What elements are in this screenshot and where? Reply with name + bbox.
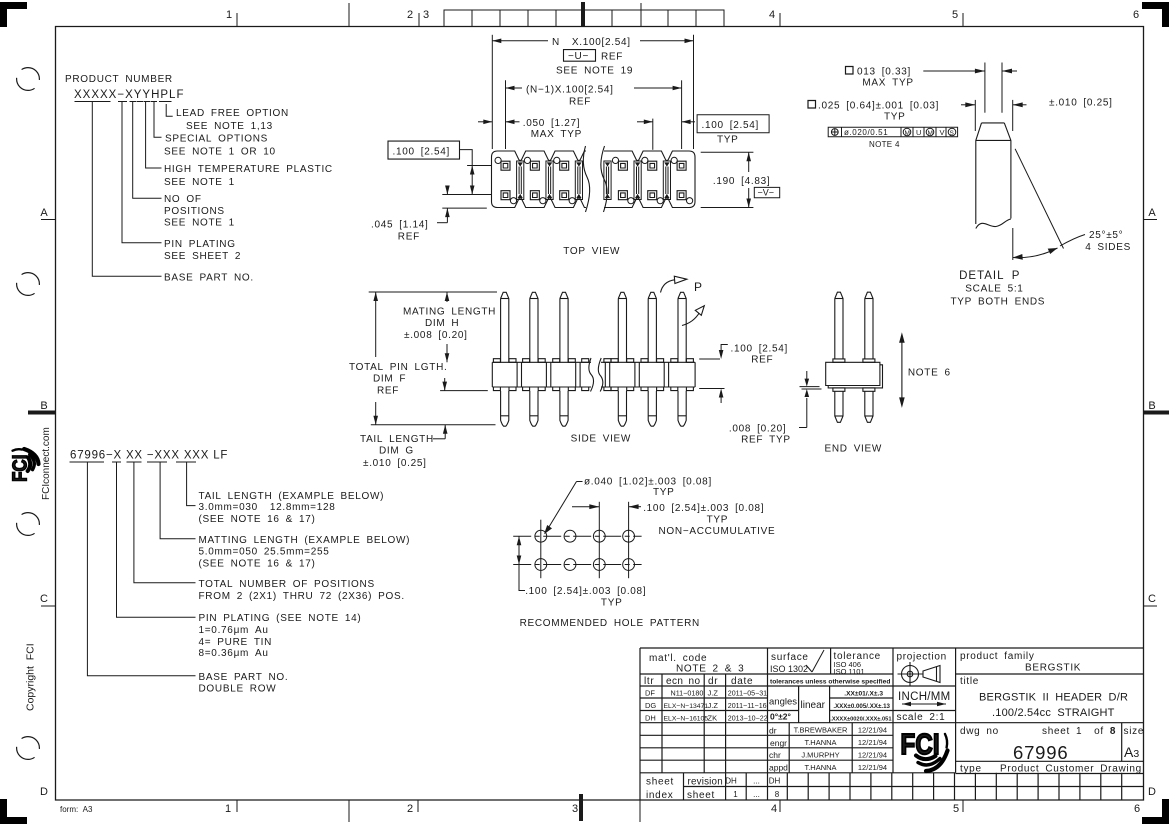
- svg-text:FCIconnect.com: FCIconnect.com: [41, 427, 52, 500]
- svg-text:RECOMMENDED HOLE PATTERN: RECOMMENDED HOLE PATTERN: [520, 618, 700, 629]
- svg-text:.025 [0.64]±.001 [0.03]: .025 [0.64]±.001 [0.03]: [818, 101, 939, 112]
- end view tabs: [833, 359, 845, 362]
- center thick mark bottom: [579, 794, 583, 821]
- end view pin tip base lines: [835, 298, 843, 300]
- svg-text:size: size: [1124, 726, 1145, 737]
- tip flat extension lines: [984, 63, 986, 113]
- svg-text:DF: DF: [645, 689, 655, 698]
- svg-text:N X.100[2.54]: N X.100[2.54]: [552, 37, 631, 48]
- svg-text:REF: REF: [751, 355, 773, 366]
- tolerance values: [830, 691, 891, 723]
- hole circles row 2: [535, 559, 547, 571]
- end view body: [826, 362, 880, 385]
- top view corner circles row1: [495, 157, 693, 204]
- svg-text:A: A: [1148, 207, 1156, 219]
- svg-text:form: A3: form: A3: [60, 805, 93, 814]
- leader XXXXX to BASE PART NO: [92, 102, 161, 277]
- registration circle 4: [17, 737, 40, 760]
- top view corner circles row2: [510, 198, 516, 204]
- corner mark bottom-right: [1142, 799, 1169, 824]
- zone numerals bottom: [225, 803, 1140, 815]
- svg-text:DH: DH: [769, 777, 781, 786]
- dimension .008 [0.20] REF TYP: [799, 371, 822, 428]
- svg-text:J.Z: J.Z: [708, 689, 719, 698]
- svg-text:REF: REF: [377, 386, 399, 397]
- svg-text:ø.020/0.51: ø.020/0.51: [844, 128, 888, 137]
- svg-text:PIN PLATING: PIN PLATING: [164, 239, 236, 250]
- svg-text:(SEE NOTE 16 & 17): (SEE NOTE 16 & 17): [199, 514, 316, 525]
- svg-text:appd: appd: [769, 763, 788, 773]
- registration circle 2: [17, 273, 40, 296]
- row centerlines: [513, 535, 641, 537]
- svg-text:8=0.36μm Au: 8=0.36μm Au: [199, 648, 269, 659]
- svg-text:C: C: [40, 593, 48, 605]
- svg-text:TYP: TYP: [707, 515, 729, 526]
- svg-text:2: 2: [407, 803, 413, 815]
- svg-text:P: P: [694, 280, 702, 294]
- svg-text:mat'l. code: mat'l. code: [649, 653, 707, 664]
- svg-text:M: M: [905, 130, 910, 137]
- square symbols for 013 and .025: [846, 67, 854, 75]
- svg-text:REF: REF: [398, 232, 420, 243]
- svg-text:index: index: [646, 790, 673, 801]
- svg-text:B: B: [40, 400, 47, 412]
- svg-text:DH: DH: [725, 777, 737, 786]
- svg-text:A: A: [40, 207, 48, 219]
- svg-text:tolerances unless otherwise sp: tolerances unless otherwise specified: [770, 679, 890, 686]
- corner mark top-right: [1142, 2, 1169, 27]
- svg-text:PRODUCT NUMBER: PRODUCT NUMBER: [65, 74, 173, 85]
- dim 025 arrows: [961, 104, 975, 106]
- svg-text:ZK: ZK: [708, 713, 718, 722]
- underlines for 67996-X XX -XXX XXX LF: [70, 462, 197, 676]
- svg-text:TYP: TYP: [601, 598, 623, 609]
- center thick mark left: [28, 411, 56, 415]
- svg-text:SEE NOTE 1,13: SEE NOTE 1,13: [186, 121, 273, 132]
- svg-text:±.010 [0.25]: ±.010 [0.25]: [363, 458, 427, 469]
- left dimension: [518, 536, 520, 564]
- svg-text:ltr: ltr: [644, 676, 654, 687]
- dimension .100 [2.54] REF (side view right): [699, 345, 728, 404]
- svg-text:.045 [1.14]: .045 [1.14]: [371, 220, 428, 231]
- title block: [640, 648, 1144, 800]
- dimension .100 [2.54] left boxed with leader: [388, 141, 491, 194]
- svg-text:.100 [2.54]±.003 [0.08]: .100 [2.54]±.003 [0.08]: [643, 503, 764, 514]
- projection symbol: [898, 662, 941, 686]
- svg-text:TOP VIEW: TOP VIEW: [563, 246, 620, 257]
- side view pin 2: [530, 292, 538, 426]
- dim H line: [446, 292, 448, 302]
- body bottom extension line: [440, 390, 488, 392]
- svg-text:(N−1)X.100[2.54]: (N−1)X.100[2.54]: [526, 85, 614, 96]
- dr engr chr appd rows: [769, 725, 788, 772]
- body width extension lines: [974, 100, 976, 131]
- svg-text:.100 [2.54]±.003 [0.08]: .100 [2.54]±.003 [0.08]: [525, 586, 646, 597]
- svg-text:REF TYP: REF TYP: [741, 435, 791, 446]
- underlines for XXXXX-XYYHPLF: [75, 102, 173, 277]
- body bottom tabs: [493, 387, 500, 391]
- svg-text:SEE NOTE 1 OR 10: SEE NOTE 1 OR 10: [164, 147, 276, 158]
- fold tick bottom 640: [639, 800, 641, 822]
- svg-text:Product Customer Drawing: Product Customer Drawing: [1000, 764, 1142, 775]
- zone letters left: [40, 207, 48, 798]
- svg-text:1: 1: [225, 803, 231, 815]
- svg-text:T.HANNA: T.HANNA: [804, 738, 836, 747]
- title block vertical rules: [661, 674, 663, 773]
- top view pins row2: [501, 191, 510, 200]
- dim 013 line: [923, 70, 985, 72]
- svg-text:DETAIL P: DETAIL P: [959, 270, 1020, 282]
- revision row DF: [645, 689, 768, 723]
- svg-text:BERGSTIK II HEADER D/R: BERGSTIK II HEADER D/R: [979, 692, 1128, 704]
- svg-text:12/21/94: 12/21/94: [858, 738, 887, 747]
- svg-text:ISO 1302: ISO 1302: [770, 664, 808, 674]
- end view pin right: [865, 292, 873, 422]
- svg-text:±.010 [0.25]: ±.010 [0.25]: [1049, 98, 1113, 109]
- svg-text:TYP: TYP: [884, 112, 906, 123]
- angle extension line: [1012, 228, 1014, 260]
- svg-text:...: ...: [753, 790, 760, 799]
- svg-text:25°±5°: 25°±5°: [1089, 230, 1123, 241]
- part number legend (bottom-left): [70, 450, 410, 695]
- svg-text:ELX−N−16105: ELX−N−16105: [664, 715, 709, 722]
- svg-text:date: date: [731, 676, 753, 687]
- svg-text:SIDE VIEW: SIDE VIEW: [571, 434, 631, 445]
- svg-text:NOTE 6: NOTE 6: [908, 368, 951, 379]
- zone ticks top edge: [237, 2, 963, 27]
- svg-text:M: M: [928, 130, 933, 137]
- side view pin 5: [648, 292, 656, 426]
- top dimension arrows: [572, 506, 599, 508]
- svg-text:DG: DG: [645, 701, 656, 710]
- body top tabs: [493, 359, 500, 363]
- leader XXX1 to MATTING LENGTH: [160, 462, 195, 539]
- registration circle 1 left margin: [17, 68, 40, 760]
- svg-text:S: S: [950, 130, 955, 137]
- dim F line: [375, 292, 377, 357]
- feature control frame: [828, 127, 957, 137]
- svg-text:ISO 1101: ISO 1101: [834, 667, 865, 676]
- svg-text:.008 [0.20]: .008 [0.20]: [729, 424, 786, 435]
- svg-text:6: 6: [1133, 9, 1139, 21]
- svg-text:TYP: TYP: [653, 487, 675, 498]
- svg-text:NON−ACCUMULATIVE: NON−ACCUMULATIVE: [659, 526, 776, 537]
- top view body outline left section: [492, 146, 696, 212]
- svg-text:12/21/94: 12/21/94: [858, 726, 887, 735]
- svg-text:DIM G: DIM G: [379, 446, 414, 457]
- svg-text:MATING LENGTH: MATING LENGTH: [403, 307, 496, 318]
- dimension .045 [1.14] REF: [437, 186, 487, 223]
- svg-text:J.MURPHY: J.MURPHY: [801, 751, 839, 760]
- leader P to SPECIAL OPTIONS: [154, 102, 162, 138]
- svg-text:title: title: [960, 676, 979, 687]
- svg-text:XXXXX−XYYHPLF: XXXXX−XYYHPLF: [74, 89, 184, 101]
- zone ticks bottom edge: [237, 794, 963, 822]
- dim G arrows: [444, 378, 446, 391]
- svg-text:product family: product family: [960, 651, 1035, 662]
- svg-text:4: 4: [771, 803, 777, 815]
- surface finish checkmark symbol: [806, 665, 812, 672]
- svg-text:3: 3: [572, 803, 578, 815]
- hole circles row 1: [535, 530, 547, 542]
- sheet index small cells: [807, 773, 809, 800]
- svg-text:U: U: [916, 128, 921, 137]
- svg-text:5.0mm=050 25.5mm=255: 5.0mm=050 25.5mm=255: [199, 547, 330, 558]
- svg-text:1: 1: [733, 790, 738, 799]
- svg-text:NOTE 4: NOTE 4: [869, 140, 900, 149]
- side view pin 1: [501, 292, 509, 426]
- svg-text:INCH/MM: INCH/MM: [898, 691, 951, 703]
- svg-text:sheet 1 of 8: sheet 1 of 8: [1042, 726, 1116, 737]
- svg-text:2: 2: [407, 9, 413, 21]
- svg-text:0°±2°: 0°±2°: [770, 712, 792, 722]
- INCH/MM double arrow: [902, 702, 946, 706]
- svg-text:3.0mm=030 12.8mm=128: 3.0mm=030 12.8mm=128: [199, 502, 336, 513]
- body break lines: [589, 358, 594, 392]
- side view dimensions: [369, 292, 497, 439]
- svg-text:scale 2:1: scale 2:1: [897, 712, 946, 723]
- svg-text:.XX±01/.X±.3: .XX±01/.X±.3: [844, 691, 883, 698]
- svg-text:MATTING LENGTH (EXAMPLE BELOW): MATTING LENGTH (EXAMPLE BELOW): [199, 535, 411, 546]
- svg-text:BASE PART NO.: BASE PART NO.: [164, 273, 254, 284]
- svg-text:±.008 [0.20]: ±.008 [0.20]: [404, 330, 468, 341]
- end view pin left: [835, 292, 843, 422]
- leader XX to TOTAL NUMBER OF POSITIONS: [134, 462, 196, 583]
- svg-text:TAIL LENGTH (EXAMPLE BELOW): TAIL LENGTH (EXAMPLE BELOW): [199, 491, 385, 502]
- svg-text:DOUBLE ROW: DOUBLE ROW: [199, 684, 277, 695]
- svg-text:engr: engr: [770, 738, 787, 748]
- svg-text:12/21/94: 12/21/94: [858, 763, 887, 772]
- svg-text:4= PURE TIN: 4= PURE TIN: [199, 637, 273, 648]
- svg-text:TYP: TYP: [717, 135, 739, 146]
- svg-text:DIM H: DIM H: [425, 318, 459, 329]
- FCI logo title block: [901, 728, 948, 771]
- svg-text:1=0.76μm Au: 1=0.76μm Au: [199, 625, 269, 636]
- column centerlines: [540, 520, 542, 579]
- svg-text:D: D: [1148, 786, 1156, 798]
- svg-text:BERGSTIK: BERGSTIK: [1025, 663, 1081, 674]
- detail P bottom break: [976, 219, 1011, 229]
- diagonal leader for hole dia: [547, 482, 577, 532]
- svg-text:ELX−N−13471: ELX−N−13471: [664, 703, 709, 710]
- detail P pin outline: [976, 123, 1011, 224]
- svg-text:B: B: [1148, 400, 1155, 412]
- svg-text:2013−10−22: 2013−10−22: [728, 714, 768, 722]
- svg-text:A3: A3: [1124, 744, 1139, 760]
- center thick mark top: [581, 2, 585, 27]
- svg-text:LEAD FREE OPTION: LEAD FREE OPTION: [176, 108, 289, 119]
- svg-text:67996−X XX −XXX XXX LF: 67996−X XX −XXX XXX LF: [70, 450, 228, 462]
- leader to 25 text: [1060, 235, 1085, 247]
- -U- datum flag: [564, 50, 596, 62]
- svg-text:T.HANNA: T.HANNA: [804, 763, 836, 772]
- title block horizontal rules: [640, 673, 893, 675]
- top view pins row1: [501, 161, 686, 200]
- svg-text:N11−0180: N11−0180: [671, 689, 704, 698]
- fold tick top 349: [348, 3, 350, 27]
- svg-text:(SEE NOTE 16 & 17): (SEE NOTE 16 & 17): [199, 559, 316, 570]
- zone letter ticks left edge: [28, 220, 56, 607]
- svg-text:.100 [2.54]: .100 [2.54]: [702, 120, 759, 131]
- svg-text:SEE NOTE 1: SEE NOTE 1: [164, 177, 235, 188]
- FCIconnect.com vertical text: [25, 427, 94, 814]
- svg-text:MAX TYP: MAX TYP: [862, 78, 913, 89]
- side view insulator body left part: [492, 362, 591, 387]
- svg-text:V: V: [940, 128, 945, 137]
- svg-text:5: 5: [953, 803, 959, 815]
- angle slant line: [1015, 149, 1063, 249]
- svg-text:013 [0.33]: 013 [0.33]: [857, 67, 911, 78]
- leader H to HIGH TEMPERATURE PLASTIC: [146, 102, 162, 169]
- svg-text:DH: DH: [645, 713, 656, 722]
- svg-text:.XXX±0.005/.XX±.13: .XXX±0.005/.XX±.13: [833, 703, 890, 710]
- svg-text:NOTE 2 & 3: NOTE 2 & 3: [676, 664, 744, 675]
- side view pin 4: [618, 292, 626, 426]
- dimension (N-1)X.100[2.54]: [506, 80, 682, 149]
- svg-text:−V−: −V−: [758, 188, 775, 198]
- svg-text:END VIEW: END VIEW: [825, 444, 883, 455]
- zone numerals top: [226, 9, 1139, 21]
- svg-text:angles: angles: [769, 697, 797, 708]
- svg-text:dwg no: dwg no: [960, 726, 999, 737]
- side view insulator body right part: [601, 362, 695, 387]
- top view body outline right section: [604, 151, 695, 161]
- dimension .100 [2.54] TYP right boxed: [637, 115, 769, 150]
- svg-text:type: type: [960, 764, 982, 775]
- leader 67996 to BASE PART NO: [87, 462, 195, 676]
- scale bar top: [444, 10, 724, 27]
- svg-text:67996: 67996: [1013, 742, 1068, 763]
- svg-text:DIM F: DIM F: [373, 374, 406, 385]
- svg-text:MAX TYP: MAX TYP: [531, 129, 582, 140]
- svg-text:POSITIONS: POSITIONS: [164, 206, 225, 217]
- svg-text:TOTAL NUMBER OF POSITIONS: TOTAL NUMBER OF POSITIONS: [199, 579, 375, 590]
- top view contact slots: [517, 161, 671, 200]
- svg-text:SEE NOTE 19: SEE NOTE 19: [556, 66, 633, 77]
- svg-text:J.Z: J.Z: [708, 701, 719, 710]
- svg-text:4: 4: [769, 9, 775, 21]
- svg-text:dr: dr: [708, 676, 718, 687]
- svg-text:surface: surface: [771, 652, 809, 663]
- registration circle 3: [17, 513, 40, 536]
- zone letters right: [1148, 207, 1156, 798]
- svg-text:Copyright FCI: Copyright FCI: [25, 643, 37, 711]
- svg-text:chr: chr: [769, 750, 781, 760]
- svg-text:2011−11−16: 2011−11−16: [728, 702, 767, 710]
- center thick mark right: [1144, 411, 1169, 415]
- NOTE 6 double arrow: [899, 332, 905, 408]
- svg-text:4 SIDES: 4 SIDES: [1085, 242, 1131, 253]
- svg-text:sheet: sheet: [687, 790, 715, 801]
- dimension .050 [1.27] MAX TYP: [478, 120, 520, 125]
- title block outer lines: [640, 647, 1144, 649]
- svg-text:8: 8: [775, 790, 780, 799]
- svg-text:TAIL LENGTH: TAIL LENGTH: [360, 434, 434, 445]
- svg-text:REF: REF: [569, 97, 591, 108]
- FCI logo left margin (rotated): [8, 449, 38, 482]
- svg-text:HIGH TEMPERATURE PLASTIC: HIGH TEMPERATURE PLASTIC: [164, 164, 333, 175]
- svg-text:−U−: −U−: [568, 51, 589, 62]
- svg-text:3: 3: [423, 9, 429, 21]
- break line right: [601, 146, 607, 212]
- svg-text:ecn no: ecn no: [666, 676, 700, 687]
- svg-text:FROM 2 (2X1) THRU 72 (2X36) PO: FROM 2 (2X1) THRU 72 (2X36) POS.: [199, 591, 405, 602]
- svg-text:dr: dr: [769, 725, 777, 735]
- svg-text:.100 [2.54]: .100 [2.54]: [393, 147, 450, 158]
- dimension .190 [4.83] with -V- flag: [701, 152, 754, 207]
- svg-text:.050 [1.27]: .050 [1.27]: [523, 118, 580, 129]
- svg-text:PIN PLATING (SEE NOTE 14): PIN PLATING (SEE NOTE 14): [199, 613, 362, 624]
- leader XXX2 to TAIL LENGTH: [187, 462, 196, 506]
- svg-text:1: 1: [226, 9, 232, 21]
- fold tick top 641: [640, 3, 642, 27]
- zone letter ticks right edge: [1144, 220, 1169, 607]
- leader X to PIN PLATING: [117, 462, 196, 617]
- svg-text:12/21/94: 12/21/94: [858, 751, 887, 760]
- title block text: [644, 651, 1144, 801]
- leader LF to LEAD FREE OPTION: [166, 104, 173, 116]
- svg-text:C: C: [1148, 593, 1156, 605]
- svg-text:5: 5: [952, 9, 958, 21]
- svg-text:.190 [4.83]: .190 [4.83]: [713, 176, 770, 187]
- svg-text:sheet: sheet: [646, 777, 674, 788]
- svg-text:revision: revision: [688, 777, 723, 788]
- svg-text:REF: REF: [601, 52, 623, 63]
- svg-text:2011−05−31: 2011−05−31: [728, 690, 767, 698]
- body cell dividers: [516, 362, 518, 387]
- leader YY to NO OF POSITIONS: [133, 102, 162, 199]
- P detail arrows: [661, 276, 705, 325]
- svg-text:projection: projection: [897, 652, 947, 663]
- svg-text:T.BREWBAKER: T.BREWBAKER: [794, 726, 848, 735]
- svg-text:.100 [2.54]: .100 [2.54]: [731, 344, 788, 355]
- svg-text:SEE NOTE 1: SEE NOTE 1: [164, 218, 235, 229]
- pin bottom extension line: [371, 424, 496, 426]
- svg-text:BASE PART NO.: BASE PART NO.: [199, 672, 289, 683]
- svg-text:.XXXX±0020/.XXX±.051: .XXXX±0020/.XXX±.051: [830, 716, 891, 722]
- svg-text:6: 6: [1134, 803, 1140, 815]
- svg-text:.100/2.54cc STRAIGHT: .100/2.54cc STRAIGHT: [992, 707, 1115, 719]
- svg-text:NO OF: NO OF: [164, 194, 202, 205]
- svg-text:SEE SHEET 2: SEE SHEET 2: [164, 251, 241, 262]
- svg-text:D: D: [40, 786, 48, 798]
- corner mark bottom-left: [0, 799, 27, 824]
- dimension N X.100[2.54]: [492, 35, 693, 149]
- angle arc with arrows: [1013, 248, 1058, 258]
- leader X to PIN PLATING: [122, 102, 162, 243]
- svg-text:TOTAL PIN LGTH.: TOTAL PIN LGTH.: [349, 362, 447, 373]
- product number legend (top-left): [65, 74, 333, 284]
- pin top extension line: [369, 291, 497, 293]
- svg-text:SCALE 5:1: SCALE 5:1: [965, 284, 1023, 295]
- svg-text:TYP BOTH ENDS: TYP BOTH ENDS: [951, 297, 1046, 308]
- svg-text:SPECIAL OPTIONS: SPECIAL OPTIONS: [165, 134, 268, 145]
- side view pin 3: [560, 292, 568, 426]
- break line left: [583, 146, 589, 212]
- svg-text:linear: linear: [801, 700, 826, 711]
- side view pin 6: [678, 292, 686, 426]
- svg-text:ø.040 [1.02]±.003 [0.08]: ø.040 [1.02]±.003 [0.08]: [584, 477, 712, 488]
- fold tick bottom 349: [348, 800, 350, 822]
- svg-text:...: ...: [753, 777, 760, 786]
